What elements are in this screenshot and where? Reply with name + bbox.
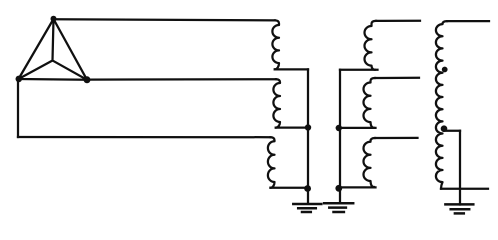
node: junction B3/bus xyxy=(335,185,342,192)
delta winding (triangle with internal Y) xyxy=(19,19,88,80)
wire: neutral bus of second bank xyxy=(339,70,341,203)
wire: B3 bottom to bus xyxy=(340,186,376,188)
wire: B2 top lead to right xyxy=(375,77,419,80)
inductor B1 (top coil, second bank) xyxy=(365,21,377,70)
ground: first bank neutral xyxy=(293,204,321,212)
wire: phase A line (top) xyxy=(54,19,276,20)
inductor: autotransformer winding (third column) xyxy=(436,21,447,188)
node: delta bottom-left terminal xyxy=(15,76,22,83)
wire: tap to ground leg xyxy=(444,130,460,132)
node: junction B2/bus xyxy=(336,125,342,131)
wire: neutral bus of first bank xyxy=(307,69,309,203)
node: delta bottom-right terminal xyxy=(84,76,91,83)
wire: B3 top lead to right xyxy=(375,137,418,139)
node: delta top terminal xyxy=(51,16,57,22)
node: junction A2/bus xyxy=(305,124,311,130)
inductor A1 (top coil, first bank) xyxy=(272,20,279,69)
inductor B3 (bottom coil, second bank) xyxy=(363,138,375,187)
wire: A2 bottom to neutral bus xyxy=(276,126,308,128)
wire: phase C leg down from delta xyxy=(17,79,19,137)
node: winding junction dot (upper) xyxy=(442,67,448,73)
ground: autotransformer tap xyxy=(445,204,473,213)
wire: phase C line (bottom) xyxy=(18,136,271,138)
wire: phase B line (middle) xyxy=(87,78,276,81)
inductor A2 (middle coil, first bank) xyxy=(273,79,280,127)
wire: ground leg vertical xyxy=(459,131,461,205)
wire: B1 bottom to bus xyxy=(340,69,378,71)
inductor B2 (middle coil, second bank) xyxy=(364,78,376,128)
wire: autotransformer bottom lead to right xyxy=(441,188,488,190)
wire: A3 bottom to neutral bus xyxy=(271,187,309,189)
wire: B2 bottom to bus xyxy=(340,127,376,129)
wire: autotransformer top lead to right xyxy=(447,20,489,22)
node: autotransformer tap xyxy=(441,125,448,132)
inductor A3 (bottom coil, first bank) xyxy=(268,137,275,188)
wire: A1 bottom to neutral bus xyxy=(275,68,308,70)
wire: B1 top lead to right xyxy=(376,20,420,22)
node: junction A3/bus xyxy=(304,185,311,192)
ground: second bank neutral xyxy=(324,203,353,212)
